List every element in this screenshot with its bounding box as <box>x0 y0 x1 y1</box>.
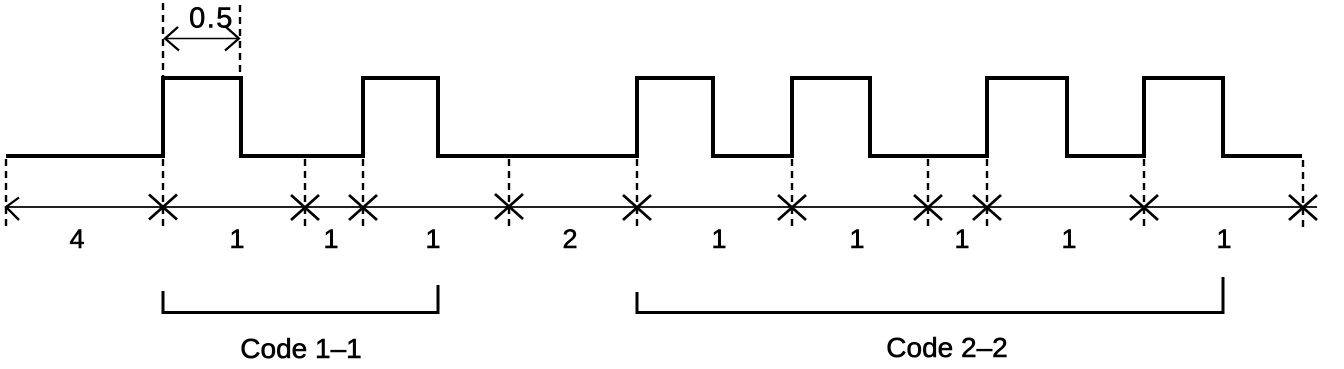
time axis line <box>6 206 1317 208</box>
X mark t4 <box>495 194 523 219</box>
svg-text:1: 1 <box>1216 224 1231 254</box>
dashed tick line t5 <box>636 159 638 228</box>
dashed tick line t8 <box>986 159 988 228</box>
X mark t2 <box>291 195 319 220</box>
X mark t3 <box>349 195 377 220</box>
dashed tick line t0 <box>5 159 7 228</box>
svg-text:2: 2 <box>562 224 577 254</box>
dashed tick line t10 <box>1302 160 1304 230</box>
svg-text:Code 2–2: Code 2–2 <box>886 332 1007 363</box>
dashed tick line t2 <box>304 159 306 228</box>
dashed tick line t4 <box>508 159 510 228</box>
dashed tick line t6 <box>791 159 793 228</box>
dimension arrowhead right <box>225 27 239 51</box>
svg-text:0.5: 0.5 <box>189 3 234 35</box>
svg-text:1: 1 <box>849 224 864 254</box>
X mark t10 <box>1289 195 1317 220</box>
X mark t8 <box>973 195 1001 220</box>
svg-text:1: 1 <box>425 224 440 254</box>
dimension arrowhead left <box>165 27 179 51</box>
dashed tick line t7 <box>927 159 929 228</box>
dashed tick line t9 <box>1143 159 1145 228</box>
svg-text:Code 1–1: Code 1–1 <box>240 333 361 364</box>
X mark t7 <box>914 195 942 220</box>
svg-text:1: 1 <box>1061 224 1076 254</box>
svg-text:1: 1 <box>954 224 969 254</box>
dashed tick line t1 <box>162 159 164 228</box>
X mark t1 <box>149 195 177 220</box>
dashed tick line t3 <box>362 159 364 228</box>
X mark t9 <box>1130 195 1158 220</box>
svg-text:4: 4 <box>69 224 84 254</box>
bracket code 2-2 <box>637 277 1223 313</box>
axis left arrowhead <box>6 198 19 221</box>
bracket code 1-1 <box>163 285 438 313</box>
svg-text:1: 1 <box>711 224 726 254</box>
svg-text:1: 1 <box>323 224 338 254</box>
X mark t5 <box>623 195 651 220</box>
dimension arrow line <box>165 38 239 40</box>
X mark t6 <box>778 195 806 220</box>
pulse width dashed line right <box>239 5 241 78</box>
svg-text:1: 1 <box>229 224 244 254</box>
pulse width dashed line left <box>162 3 164 78</box>
pulse waveform <box>6 78 1302 156</box>
